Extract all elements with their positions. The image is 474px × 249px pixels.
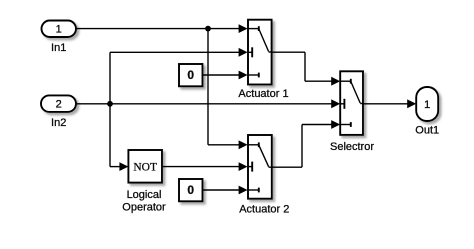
wire junction up to Actuator 1 input 2 [110, 52, 240, 104]
arrow into Actuator 2 input 1 [239, 140, 248, 149]
Actuator 1 switch glyph [248, 26, 272, 77]
svg-text:Operator: Operator [122, 202, 166, 214]
wire constant 0 upper to Actuator 1 input 3 [203, 74, 241, 76]
svg-text:In2: In2 [51, 117, 66, 129]
Actuator 2 label [239, 203, 289, 215]
svg-text:0: 0 [187, 183, 194, 197]
Selectror switch glyph [340, 79, 363, 127]
Actuator 2 switch glyph [248, 142, 272, 192]
svg-text:Logical: Logical [127, 189, 162, 201]
svg-text:Actuator 1: Actuator 1 [238, 88, 288, 100]
junction node on In2 wire [107, 101, 113, 107]
switch block Actuator 1 [248, 20, 272, 85]
In1 label [51, 42, 66, 54]
wire junction down to NOT input [110, 104, 121, 167]
svg-text:Selectror: Selectror [330, 141, 374, 153]
arrow into Actuator 1 input 1 [239, 24, 248, 33]
switch block Actuator 2 [248, 135, 272, 199]
arrow into Actuator 1 input 3 [239, 71, 248, 80]
svg-text:0: 0 [187, 68, 194, 82]
wire In1 to Actuator 1 input 1 [76, 28, 240, 30]
wire Selectror output to Out1 [363, 103, 409, 105]
wire NOT output to Actuator 2 input 2 [162, 166, 240, 168]
arrow into Actuator 2 input 3 [239, 186, 248, 195]
svg-text:1: 1 [424, 99, 430, 111]
arrow into Selectror input 1 [331, 77, 340, 86]
NOT text [133, 161, 157, 173]
arrow into Selectror input 2 [331, 99, 340, 108]
Actuator 1 label [238, 88, 288, 100]
arrow into Actuator 2 input 2 [239, 162, 248, 171]
inport In2 [41, 95, 76, 112]
constant block 0 upper [179, 64, 203, 86]
svg-text:2: 2 [56, 99, 62, 111]
In1 port number 1 [56, 24, 62, 36]
switch block Selectror [340, 71, 363, 135]
In2 port number 2 [56, 99, 62, 111]
wire junction down to Actuator 2 input 1 [208, 29, 240, 145]
svg-text:In1: In1 [51, 42, 66, 54]
Logical Operator label [122, 189, 166, 214]
logical operator NOT block [128, 150, 162, 183]
wire In2 to Selectror input 2 [76, 103, 333, 105]
Out1 port number 1 [424, 99, 430, 111]
constant 0 upper value [187, 68, 194, 82]
svg-text:1: 1 [56, 24, 62, 36]
wire Actuator 2 output to Selectror input 3 [272, 125, 333, 168]
In2 label [51, 117, 66, 129]
svg-text:NOT: NOT [133, 161, 157, 173]
inport In1 [42, 21, 77, 38]
svg-text:Out1: Out1 [415, 125, 439, 137]
wire constant 0 lower to Actuator 2 input 3 [203, 189, 241, 191]
constant 0 lower value [187, 183, 194, 197]
outport Out1 [416, 87, 438, 121]
arrow into Out1 [407, 99, 416, 108]
constant block 0 lower [179, 179, 203, 201]
arrow into NOT input [119, 162, 128, 171]
arrow into Selectror input 3 [331, 120, 340, 129]
wire Actuator 1 output to Selectror input 1 [272, 52, 333, 81]
Selectror label [330, 141, 374, 153]
Out1 label [415, 125, 439, 137]
junction node on In1 wire [205, 26, 211, 32]
svg-text:Actuator 2: Actuator 2 [239, 203, 289, 215]
arrow into Actuator 1 input 2 [239, 48, 248, 57]
